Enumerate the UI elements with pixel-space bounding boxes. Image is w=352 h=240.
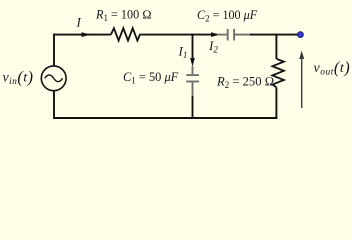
voltage source U vin [41,66,66,91]
wire top middle segment [141,34,212,36]
capacitor C1 [186,66,199,97]
svg-text:I: I [76,15,82,30]
current arrow I1 [190,58,195,67]
resistor R2 [272,59,284,88]
vout arrow [299,51,304,109]
svg-text:vin(t): vin(t) [3,67,34,87]
wire top left segment [53,34,111,36]
wire top right segment [250,34,298,36]
wire left vertical bottom [53,91,55,118]
wire left vertical top [53,34,55,66]
resistor R1 [111,28,141,40]
wire bottom [53,117,277,119]
current arrow I2 [211,32,220,37]
wire C1 branch top [192,34,194,59]
node out (blue) [298,32,304,38]
capacitor C2 [217,29,251,41]
wire R2 branch top [275,34,277,59]
current arrow I [82,32,91,37]
wire R2 branch bottom [275,87,277,119]
wire C1 branch bottom [192,96,194,119]
